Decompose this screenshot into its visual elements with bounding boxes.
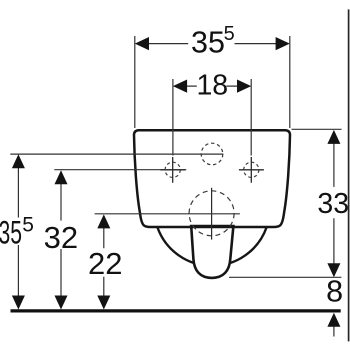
left fixing hole dashed circle xyxy=(165,162,180,177)
dim 18: extension line right xyxy=(250,79,252,156)
dim 18: extension line left xyxy=(172,79,174,156)
pan underside arc xyxy=(158,228,267,266)
dim 32: dimension line xyxy=(60,184,62,297)
right border frame line xyxy=(348,9,350,341)
dim 22: extension line through outlet axis xyxy=(95,213,240,215)
arrow down dim 35.5 left xyxy=(12,296,25,310)
svg-text:35: 35 xyxy=(0,214,22,251)
svg-text:18: 18 xyxy=(196,70,228,102)
arrow left of dim 18 xyxy=(173,80,187,93)
right fixing hole dashed circle xyxy=(244,162,259,177)
arrow up dim 8 below floor xyxy=(327,313,340,327)
svg-text:8: 8 xyxy=(326,275,343,309)
dim 35.5 top: dimension line xyxy=(148,43,276,45)
left fixing hole cross xyxy=(160,157,185,183)
dim 18: dimension line xyxy=(186,85,237,87)
arrow right of dim 35.5 top xyxy=(276,37,290,50)
arrow up dim 32 xyxy=(55,170,68,184)
WC body outline xyxy=(134,130,290,227)
svg-text:32: 32 xyxy=(44,220,78,255)
outlet dashed circle xyxy=(189,191,234,236)
flush valve dashed circle xyxy=(201,143,223,165)
dim 35.5 top: extension line right xyxy=(289,36,291,128)
dim 35.5 top: extension line left xyxy=(134,36,136,128)
dim 35.5 left: extension line at rim height xyxy=(10,153,223,155)
dim 8: arrow tail below floor xyxy=(333,326,335,337)
dim 35.5 left: dimension line xyxy=(17,167,19,296)
outlet centerline vertical xyxy=(211,188,213,240)
arrow down dim 33 at trap bottom line xyxy=(327,263,340,277)
svg-text:33: 33 xyxy=(317,188,349,220)
floor line xyxy=(11,309,341,312)
arrow down dim 32 xyxy=(55,296,68,310)
dim 8: extension line at trap bottom xyxy=(229,276,341,278)
svg-text:5: 5 xyxy=(22,214,34,237)
arrow left of dim 35.5 top xyxy=(135,37,149,50)
svg-text:35: 35 xyxy=(191,25,225,59)
arrow down dim 22 xyxy=(97,296,110,310)
right fixing hole cross xyxy=(239,157,264,183)
arrow up dim 33 xyxy=(327,130,340,144)
arrow up dim 22 xyxy=(97,214,110,228)
dim 33: extension line top xyxy=(292,128,342,130)
arrow up dim 35.5 left xyxy=(12,154,25,168)
arrow right of dim 18 xyxy=(237,80,251,93)
dim 33: dimension line xyxy=(333,143,335,264)
trap outlet U xyxy=(191,226,233,278)
dim 32: extension line xyxy=(54,169,186,171)
svg-text:5: 5 xyxy=(224,23,235,45)
svg-text:22: 22 xyxy=(88,246,122,281)
dim 22: dimension line xyxy=(103,228,105,296)
